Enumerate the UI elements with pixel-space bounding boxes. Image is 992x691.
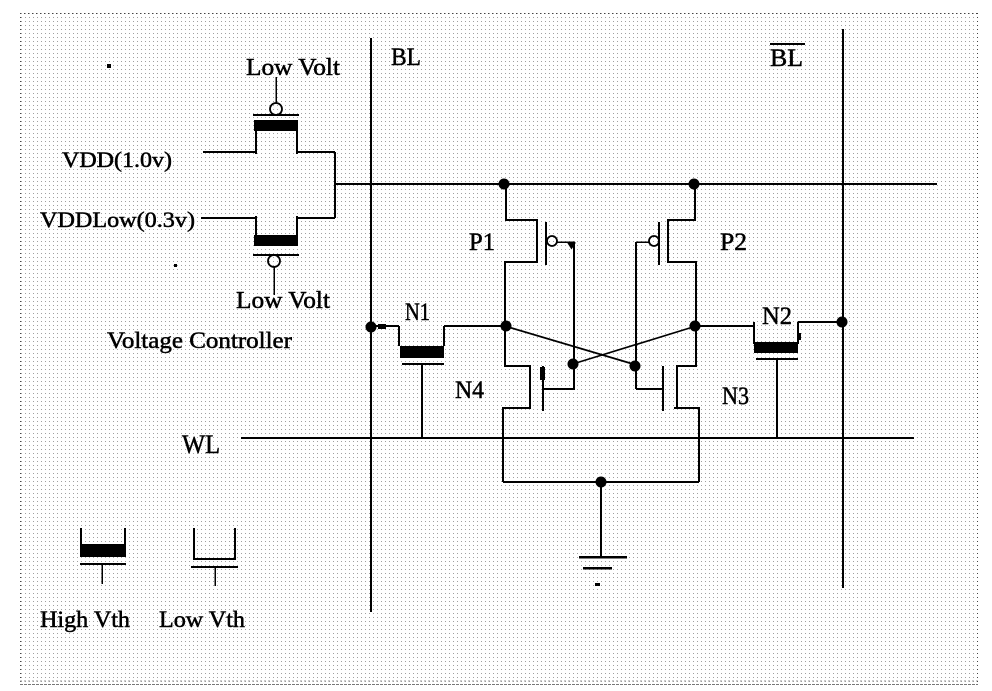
svg-text:N4: N4 (455, 377, 484, 404)
svg-text:VDD(1.0v): VDD(1.0v) (62, 147, 172, 172)
svg-text:BL: BL (391, 44, 421, 71)
svg-text:VDDLow(0.3v): VDDLow(0.3v) (40, 207, 195, 232)
svg-text:N1: N1 (405, 299, 430, 326)
svg-text:Low Volt: Low Volt (236, 288, 330, 314)
svg-text:P2: P2 (720, 229, 747, 256)
svg-text:WL: WL (182, 430, 220, 459)
svg-text:P1: P1 (469, 229, 495, 256)
svg-text:High Vth: High Vth (40, 607, 131, 632)
svg-text:Low Vth: Low Vth (159, 607, 246, 632)
svg-text:N2: N2 (762, 303, 792, 330)
svg-text:N3: N3 (722, 383, 749, 410)
svg-text:Low Volt: Low Volt (246, 55, 340, 81)
svg-text:Voltage Controller: Voltage Controller (107, 328, 292, 353)
svg-text:BL: BL (770, 45, 803, 72)
